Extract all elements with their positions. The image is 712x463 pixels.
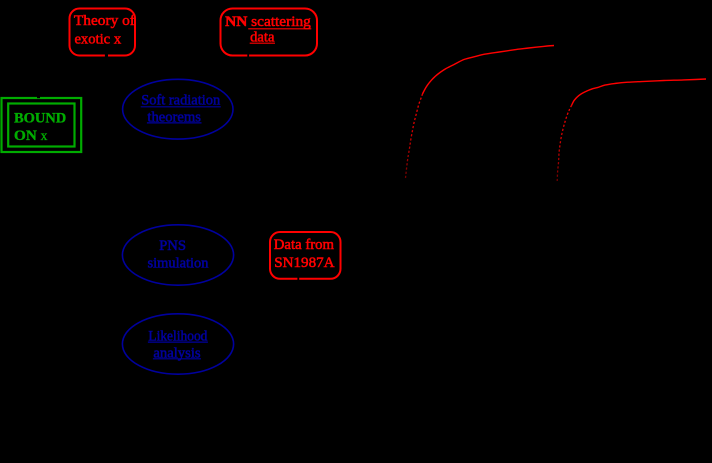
svg-text:simulation: simulation — [148, 256, 209, 272]
svg-text:BOUND: BOUND — [14, 110, 66, 127]
underline under "Soft radiation" — [141, 106, 221, 108]
notch: arrow crossing on green box top border — [37, 96, 40, 98]
red curve 2: upper solid segment — [572, 79, 707, 106]
underline under "analysis" — [153, 358, 201, 360]
svg-text:ON x: ON x — [14, 127, 48, 144]
underline under "Likelihood" — [148, 341, 208, 343]
svg-text:NN scattering: NN scattering — [225, 14, 311, 30]
node: PNS simulation (blue ellipse) — [122, 225, 233, 285]
svg-text:exotic x: exotic x — [74, 31, 121, 47]
node: Data from SN1987A (red rounded box) — [270, 232, 341, 279]
notch: arrow crossing on Data box bottom border — [297, 277, 299, 280]
notch: arrow crossing on NN box bottom border — [247, 54, 249, 57]
svg-text:PNS: PNS — [159, 238, 186, 254]
notch: arrow crossing on Theory box bottom border — [105, 54, 108, 57]
node: Theory of exotic x (red rounded box) — [70, 9, 136, 56]
underline under "scattering" — [248, 28, 311, 30]
svg-text:Soft radiation: Soft radiation — [141, 92, 221, 108]
red curve 2: steep dashed lower segment — [557, 106, 571, 182]
red curve 1: upper solid segment — [423, 46, 555, 95]
underline under "theorems" — [147, 122, 202, 124]
svg-text:Data from: Data from — [274, 237, 335, 253]
node: Soft radiation theorems (blue ellipse) — [123, 79, 233, 139]
red curve 1: steep dashed lower segment — [406, 94, 423, 178]
svg-text:SN1987A: SN1987A — [274, 255, 335, 271]
node: NN scattering data (red rounded box) — [221, 9, 318, 56]
underline under "data" — [250, 42, 275, 44]
node: Likelihood analysis (blue ellipse) — [122, 314, 233, 374]
node: BOUND ON x (green double box) — [2, 98, 82, 152]
svg-text:Theory of: Theory of — [74, 13, 135, 29]
